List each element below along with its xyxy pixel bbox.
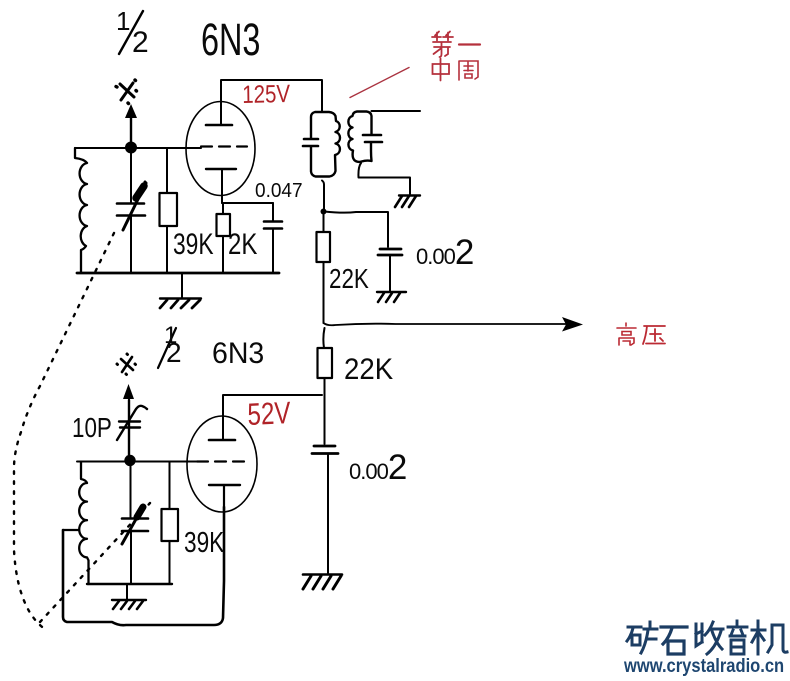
resistor R5 39K leads bbox=[169, 462, 171, 585]
wire secondary top out bbox=[372, 110, 421, 112]
wire cathode V1 down bbox=[221, 169, 223, 203]
text 6N3 (top) bbox=[201, 14, 260, 66]
resistor R3 22K leads bbox=[323, 212, 325, 324]
IFT T1 primary tank loop bbox=[311, 112, 340, 177]
resistor R2 2K leads bbox=[222, 203, 224, 273]
char zhong bbox=[433, 59, 450, 81]
label 39K (top) bbox=[173, 228, 214, 262]
label 0.002 (lower) bbox=[349, 448, 406, 488]
ground G1 stem bbox=[181, 274, 183, 298]
node cathode junction wire to C2 bbox=[222, 202, 273, 204]
wire bottom bus 1 bbox=[77, 272, 279, 275]
arrow up bottom circuit bbox=[128, 400, 130, 461]
label 125V bbox=[242, 80, 290, 110]
asterisk mark top bbox=[116, 80, 137, 104]
char ya bbox=[643, 326, 665, 344]
resistor R2 2K body bbox=[217, 214, 231, 236]
tube V1 plate bar bbox=[206, 124, 232, 127]
wire plate V1 to IFT primary top bbox=[221, 80, 322, 125]
wire secondary bottom to ground bbox=[358, 163, 410, 194]
red CJK label gao-ya (HV) bbox=[614, 321, 670, 347]
variable capacitor C1 arrow bbox=[123, 193, 141, 230]
logo char kuang bbox=[627, 622, 657, 653]
logo char ji bbox=[752, 621, 787, 654]
char di bbox=[432, 32, 453, 58]
label 52V bbox=[247, 395, 291, 433]
tube V2 grid dashed bbox=[197, 460, 244, 462]
variable capacitor C1 plates bbox=[117, 204, 145, 216]
half fraction slash bottom bbox=[158, 328, 176, 368]
variable capacitor C6 plates bbox=[122, 519, 148, 532]
resistor R1 39K leads bbox=[166, 148, 168, 273]
ground G5 hatches bbox=[112, 599, 146, 601]
char yi bbox=[459, 43, 480, 45]
char zhou bbox=[459, 61, 478, 80]
tube V1 envelope bbox=[186, 102, 255, 196]
asterisk mark bottom bbox=[117, 354, 136, 375]
HV arrow head bbox=[562, 317, 583, 332]
coil L2 bbox=[79, 462, 88, 584]
resistor R1 39K body bbox=[160, 193, 178, 226]
dotted shield diagonal B bbox=[40, 503, 150, 622]
red pointer line bbox=[350, 68, 409, 98]
tube V1 cathode bar bbox=[206, 168, 236, 170]
capacitor C2 0.047 leads bbox=[272, 203, 274, 273]
capacitor C2 0.047 plates bbox=[264, 222, 282, 229]
IFT T1 secondary tank loop bbox=[348, 112, 371, 162]
ground G4 bbox=[303, 573, 342, 576]
wire primary bottom down bbox=[322, 181, 324, 212]
label 2K bbox=[228, 228, 257, 262]
red CJK annotation di-yi zhong-zhou bbox=[428, 28, 488, 84]
capacitor C3 0.002 plates bbox=[378, 249, 402, 255]
node B junction bbox=[321, 209, 327, 215]
wire tap loop to cathode V2 bbox=[63, 507, 224, 625]
node A junction dot bbox=[125, 142, 137, 154]
variable capacitor C6 arrow bbox=[122, 512, 140, 544]
dotted shield curve A bbox=[14, 233, 114, 630]
label 39K (bottom) bbox=[184, 527, 224, 560]
wire cathode V2 bbox=[223, 485, 225, 510]
text half numeral 2 (bottom) bbox=[166, 337, 182, 369]
logo char shou bbox=[696, 622, 723, 654]
IFT T1 secondary capacitor plates bbox=[363, 135, 382, 142]
capacitor C4 0.002 plates bbox=[312, 446, 338, 454]
wire bottom bus 2 bbox=[87, 583, 172, 585]
text half numeral 2 (top) bbox=[132, 26, 149, 60]
label 0.002 (upper) bbox=[416, 233, 473, 273]
ground G1 hatches bbox=[160, 297, 201, 299]
watermark url bbox=[624, 656, 763, 678]
resistor R4 22K body bbox=[318, 348, 333, 378]
label 22K (upper) bbox=[329, 263, 369, 295]
variable capacitor C1 stems bbox=[130, 152, 132, 273]
logo char yin bbox=[728, 621, 747, 654]
capacitor C3 lead to ground bbox=[389, 256, 391, 291]
coil L1 bbox=[75, 148, 87, 273]
label 10P bbox=[72, 412, 112, 444]
resistor R4 22K leads bbox=[323, 328, 324, 395]
logo char shi bbox=[661, 627, 687, 654]
label 22K (lower) bbox=[344, 353, 393, 387]
wire plate V2 to node C bbox=[223, 395, 322, 440]
wire grid bus of V1 bbox=[75, 147, 201, 149]
node C continues to C4 bbox=[324, 395, 326, 444]
tube V1 grid (dashed) bbox=[201, 145, 247, 147]
ground G5 stem bbox=[126, 584, 128, 599]
ground G3 bbox=[377, 291, 406, 293]
IFT T1 primary capacitor plates bbox=[303, 139, 318, 146]
variable capacitor C6 stems bbox=[130, 465, 133, 584]
variable capacitor C5 10P plates bbox=[119, 422, 140, 428]
wire HV run bbox=[324, 323, 579, 325]
tube V2 cathode bar bbox=[209, 484, 240, 486]
wire node B to C3 bbox=[324, 212, 388, 248]
resistor R5 39K body bbox=[162, 509, 179, 541]
text half numeral 1 (top) bbox=[116, 6, 130, 37]
tube V2 envelope bbox=[187, 416, 257, 512]
label 0.047 bbox=[255, 180, 303, 203]
variable capacitor C5 slash bbox=[117, 406, 147, 440]
tube V2 plate bar bbox=[209, 439, 235, 442]
wire grid bus 2 bbox=[77, 461, 197, 463]
ground G2 hatches bbox=[399, 194, 420, 196]
watermark logo crystalradio CJK bbox=[624, 619, 789, 679]
arrow up from node A bbox=[130, 116, 132, 147]
char gao bbox=[617, 323, 636, 345]
capacitor C4 lead down bbox=[327, 455, 329, 573]
half fraction slash top bbox=[119, 11, 143, 54]
resistor R3 22K body bbox=[317, 232, 331, 262]
text 6N3 (bottom) bbox=[212, 337, 264, 371]
wire tap on L2 bbox=[63, 529, 79, 531]
text half numeral 1 (bottom) bbox=[164, 322, 177, 350]
node D dot bbox=[124, 455, 135, 466]
